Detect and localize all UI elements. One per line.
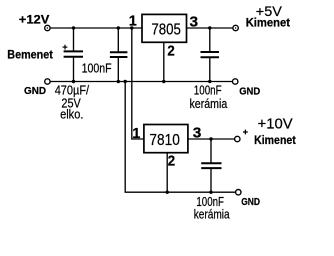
wire C1 upper lead	[73, 28, 75, 51]
wire 7810 feed from +12V rail	[132, 28, 144, 139]
wire top +12V rail	[50, 27, 141, 29]
capacitor C4 100nF ceramic plates	[201, 163, 221, 168]
terminal T2 GND input	[45, 79, 50, 84]
terminal T6 GND right bottom	[236, 190, 241, 195]
svg-text:1: 1	[129, 14, 137, 30]
svg-text:+12V: +12V	[19, 12, 50, 26]
node +5V label	[256, 3, 283, 19]
wire C2 lower lead	[117, 58, 119, 82]
junction top wire / C2	[117, 26, 120, 29]
svg-text:2: 2	[168, 154, 175, 170]
svg-text:Bemenet: Bemenet	[7, 49, 53, 61]
wire C3 lower lead	[209, 58, 211, 82]
polarity plus at T5	[243, 130, 248, 135]
svg-text:1: 1	[132, 126, 140, 142]
value label C2 100nF	[82, 61, 112, 76]
junction rail1 / C1	[72, 80, 75, 83]
svg-text:kerámia: kerámia	[194, 207, 230, 222]
svg-text:GND: GND	[24, 85, 46, 97]
wire C4 lower lead	[210, 169, 212, 192]
wire C1 lower lead	[73, 58, 75, 82]
node GND label right top	[239, 86, 260, 98]
pin 1 label U1	[129, 14, 137, 30]
junction top wire / 7810 feed	[130, 26, 133, 29]
svg-text:kerámia: kerámia	[190, 96, 228, 111]
wire ground rail 1	[50, 81, 233, 83]
wire U1 pin3 output	[187, 27, 234, 29]
junction out10 / C4	[209, 137, 212, 140]
junction rail1 / ground link	[124, 80, 127, 83]
svg-text:GND: GND	[239, 86, 260, 98]
svg-text:elko.: elko.	[60, 107, 83, 122]
svg-text:100nF: 100nF	[82, 61, 112, 76]
svg-text:Kimenet: Kimenet	[246, 17, 290, 29]
junction rail2 / C4	[209, 191, 212, 194]
junction rail1 / C3	[208, 80, 211, 83]
pin 3 label U1	[190, 15, 199, 31]
svg-text:7805: 7805	[151, 21, 181, 38]
terminal T1 +12V input	[45, 25, 50, 30]
wire U1 pin2 to rail1	[163, 42, 165, 81]
svg-text:GND: GND	[241, 196, 260, 208]
wire ground link rail1 to rail2	[125, 82, 236, 193]
svg-text:Kimenet: Kimenet	[254, 135, 296, 147]
node Kimenet label top	[246, 17, 290, 29]
value label C4 keramia	[194, 207, 230, 222]
svg-text:100nF: 100nF	[194, 82, 222, 97]
capacitor C3 100nF ceramic plates	[201, 52, 220, 57]
node +10V label	[258, 115, 293, 132]
capacitor C1 470uF polarity plus	[63, 45, 68, 50]
junction rail1 / C2	[117, 80, 120, 83]
value label C3 100nF	[194, 82, 222, 97]
svg-text:+10V: +10V	[258, 115, 293, 132]
svg-text:2: 2	[167, 43, 174, 59]
node Bemenet label	[7, 49, 53, 61]
junction out5 / C3	[208, 26, 211, 29]
capacitor C2 100nF plates	[110, 52, 128, 57]
pin 1 label U2	[132, 126, 140, 142]
wire C3 upper lead	[209, 28, 211, 52]
value label C1 470uF line1	[55, 82, 90, 97]
wire C4 upper lead	[210, 139, 212, 163]
pin 3 label U2	[193, 125, 202, 141]
wire U2 pin3 output	[188, 138, 235, 140]
value label C3 keramia	[190, 96, 228, 111]
terminal T3 +5V output	[233, 25, 238, 30]
pin 2 label U2	[168, 154, 175, 170]
terminal T5 +10V output	[235, 136, 240, 141]
junction top wire / C1	[72, 26, 75, 29]
terminal T4 GND right top	[233, 79, 238, 84]
node Kimenet label bottom	[254, 135, 296, 147]
node +12V label	[19, 12, 50, 26]
wire U2 pin2 to rail2	[166, 153, 168, 193]
op-amp U2 regulator 7810 box	[144, 125, 188, 153]
node GND label right bottom	[241, 196, 260, 208]
svg-text:7810: 7810	[149, 132, 179, 149]
junction rail2 / U2 pin2	[166, 191, 169, 194]
wire C2 upper lead	[117, 28, 119, 52]
value label C4 100nF	[196, 194, 224, 209]
junction rail1 / U1 pin2	[162, 80, 165, 83]
value label C1 470uF line3	[60, 107, 83, 122]
pin 2 label U1	[167, 43, 174, 59]
capacitor C1 470uF plates	[64, 51, 83, 56]
op-amp U1 regulator 7805 box	[142, 14, 187, 42]
node GND label left	[24, 85, 46, 97]
value label C1 470uF line2	[61, 96, 81, 111]
